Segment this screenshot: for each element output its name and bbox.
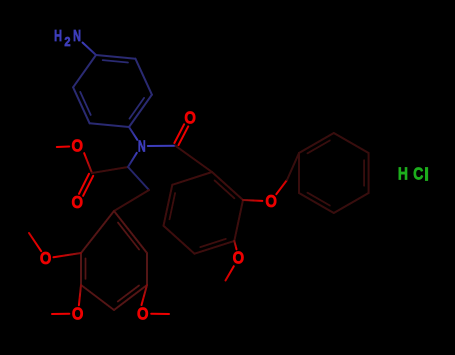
svg-text:H: H — [54, 27, 62, 45]
svg-text:O: O — [184, 109, 196, 128]
svg-text:C: C — [413, 165, 423, 184]
svg-text:O: O — [265, 192, 277, 211]
svg-text:2: 2 — [64, 34, 70, 49]
svg-text:O: O — [137, 304, 149, 323]
svg-text:O: O — [233, 249, 245, 268]
svg-text:O: O — [71, 193, 83, 212]
svg-text:O: O — [71, 137, 83, 156]
svg-text:N: N — [73, 27, 81, 45]
svg-text:l: l — [424, 164, 429, 184]
svg-text:O: O — [40, 249, 52, 268]
svg-text:O: O — [72, 304, 84, 323]
svg-text:H: H — [398, 165, 408, 184]
svg-text:N: N — [138, 137, 146, 155]
